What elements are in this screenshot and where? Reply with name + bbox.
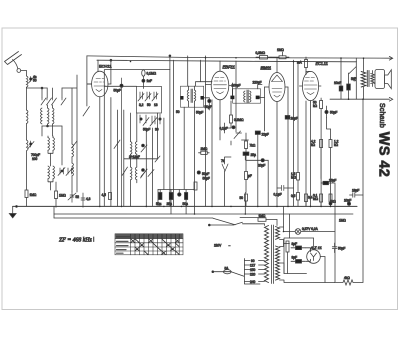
resistor 0.15M ecl left <box>297 173 300 193</box>
svg-text:220: 220 <box>250 272 256 276</box>
svg-text:1MΩ: 1MΩ <box>277 48 284 52</box>
capacitor 100pF osc low <box>142 169 145 172</box>
capacitor trimmer pad3 <box>152 92 158 101</box>
capacitor 8uF a <box>291 246 306 250</box>
wire hv vertical <box>334 184 336 283</box>
svg-text:10µF: 10µF <box>291 117 298 121</box>
antenna <box>5 52 27 77</box>
voltage selector <box>244 259 264 285</box>
trimmer arrows osc low <box>148 156 160 177</box>
resistor 2M ebf <box>199 151 210 154</box>
terminal top right <box>389 56 392 60</box>
svg-text:~: ~ <box>229 244 231 248</box>
coil band L7 pair <box>48 166 55 190</box>
capacitor 10nF tone <box>347 73 351 99</box>
tube EBF11 <box>206 61 233 140</box>
svg-text:52: 52 <box>76 195 80 199</box>
mains switch <box>209 222 265 225</box>
oscillator box outline <box>104 70 170 207</box>
wire lower bus 2 <box>54 213 353 215</box>
resistor zigzag tone <box>0 0 1 1</box>
resistor 0.5M ecl left2 <box>297 193 308 207</box>
wire em verts <box>258 60 306 206</box>
resistor 1M band <box>55 182 58 207</box>
capacitor 25uF ecl <box>321 181 335 184</box>
node junction dots buses <box>99 57 364 232</box>
svg-text:2MΩ: 2MΩ <box>201 147 208 151</box>
capacitor 8uF b <box>291 260 306 264</box>
svg-text:8µF: 8µF <box>292 256 298 260</box>
svg-text:kΩ: kΩ <box>334 143 339 147</box>
resistor 0.1M osc <box>142 70 145 89</box>
capacitor 10uF right <box>347 193 363 206</box>
svg-text:0,3MΩ: 0,3MΩ <box>234 118 244 122</box>
resistor 1.2k <box>329 129 332 206</box>
svg-text:1MΩ: 1MΩ <box>339 219 346 223</box>
wire ECH anode <box>110 60 112 206</box>
resistor ECL plate feed <box>305 57 308 75</box>
svg-text:µF: µF <box>248 174 252 178</box>
svg-text:220pF: 220pF <box>253 81 262 85</box>
svg-text:50µF: 50µF <box>114 89 121 93</box>
svg-text:1MΩ: 1MΩ <box>259 214 266 218</box>
switch arrow to grid <box>83 107 90 117</box>
capacitor 50uF ecl <box>325 110 328 113</box>
resistor 4.2k <box>320 140 323 179</box>
svg-text:0,1µF: 0,1µF <box>274 192 282 196</box>
capacitor 100pF osc <box>142 144 145 147</box>
coil antenna L2 <box>27 110 29 140</box>
capacitor 0.1uF af <box>277 185 294 190</box>
node ECH anode dot <box>110 59 112 61</box>
switch S1 contacts <box>41 98 66 105</box>
resistor 50k ecl cathode <box>320 98 323 206</box>
resistor 7k ebf <box>245 133 248 152</box>
dial lamp <box>284 229 335 235</box>
svg-text:50µ: 50µ <box>183 202 189 206</box>
svg-text:ZF = 468 kHz ǀ: ZF = 468 kHz ǀ <box>59 237 94 244</box>
svg-text:0,57V 0,2A: 0,57V 0,2A <box>302 227 319 231</box>
resistor 0.1M low1 <box>320 194 323 206</box>
coil band L4 pair <box>48 105 55 126</box>
svg-text:A Z 11: A Z 11 <box>310 245 322 250</box>
tube AZ11 rectifier <box>307 250 321 264</box>
wire ground bus <box>13 205 357 207</box>
wire second top bus <box>97 60 357 62</box>
table <box>115 234 183 255</box>
resistor az feed <box>286 241 289 274</box>
svg-text:50µF: 50µF <box>203 177 210 181</box>
wire speaker return vertical <box>362 99 364 282</box>
transformer IFT2 <box>230 83 264 103</box>
wire top B+ bus <box>87 56 392 58</box>
capacitor em series <box>271 52 289 59</box>
transformer IFT1 <box>180 86 209 107</box>
svg-text:25µ: 25µ <box>167 202 173 206</box>
svg-text:18µF: 18µF <box>352 189 359 193</box>
switch arrow ebf <box>234 131 241 139</box>
wire mid horiz <box>124 158 158 160</box>
svg-text:30: 30 <box>155 128 159 132</box>
wire az to bleeder <box>306 248 326 282</box>
capacitor 50pF ECH <box>120 78 123 207</box>
switch S2 arrows osc <box>72 140 148 178</box>
coil osc pair upper <box>131 142 137 155</box>
wire ebf verts <box>212 61 268 214</box>
fuse <box>212 270 244 277</box>
svg-text:50: 50 <box>240 196 244 200</box>
svg-text:10nF: 10nF <box>334 81 341 85</box>
terminal lower right <box>389 97 392 101</box>
svg-text:Schaub: Schaub <box>378 103 385 128</box>
svg-text:0,1MΩ: 0,1MΩ <box>147 72 157 76</box>
svg-text:0,1µF: 0,1µF <box>220 127 228 131</box>
coil band L6 pair <box>48 136 55 166</box>
wire IFT1 top feed <box>196 82 213 87</box>
node ant junction <box>41 87 43 89</box>
svg-text:150: 150 <box>250 268 256 272</box>
svg-text:50: 50 <box>33 79 37 83</box>
speaker <box>374 70 392 89</box>
wire osc verticals <box>118 110 164 206</box>
svg-text:kΩ: kΩ <box>313 104 318 108</box>
padder box <box>137 87 162 114</box>
AZ11 frame <box>284 238 314 274</box>
svg-text:3÷13µF: 3÷13µF <box>129 155 140 159</box>
svg-text:ECH11: ECH11 <box>99 63 112 68</box>
resistor 0.3M ebf <box>230 101 233 128</box>
switch tone arrow <box>349 67 357 74</box>
svg-text:25µF: 25µF <box>329 179 336 183</box>
wire lower bus 3 <box>54 218 258 225</box>
svg-text:100: 100 <box>32 157 38 161</box>
capacitor 20uF agc <box>246 159 268 162</box>
svg-text:50µF: 50µF <box>196 111 203 115</box>
capacitor trimmer pad1 <box>138 92 144 101</box>
wire antenna row <box>27 87 48 89</box>
capacitor 4-8 <box>81 193 85 207</box>
wire ecl verts <box>306 71 331 206</box>
svg-text:50: 50 <box>176 110 180 114</box>
resistor 1M heater <box>258 218 277 226</box>
svg-text:4,5: 4,5 <box>102 193 107 197</box>
capacitor 5nF tone <box>339 58 343 99</box>
resistor 1M ant <box>25 190 28 206</box>
tube ECH11 <box>87 60 111 206</box>
capacitor hv <box>332 243 337 253</box>
capacitor 25uF ebf <box>243 152 249 171</box>
wire bus2-3 left joint <box>53 206 55 218</box>
capacitor dot cluster3 <box>178 193 181 196</box>
svg-text:1MΩ: 1MΩ <box>30 193 37 197</box>
node switch bus dot <box>47 125 49 127</box>
ground <box>9 206 17 218</box>
svg-text:4,8: 4,8 <box>86 197 91 201</box>
svg-text:13: 13 <box>154 103 158 107</box>
svg-text:7kΩ: 7kΩ <box>250 144 256 148</box>
capacitor osc row below <box>140 114 161 126</box>
svg-text:50µF: 50µF <box>338 247 345 251</box>
capacitor 10n right <box>197 171 200 174</box>
svg-text:3,2: 3,2 <box>139 103 144 107</box>
wire EBF left vert <box>201 56 210 207</box>
svg-text:ECL11: ECL11 <box>316 61 329 66</box>
svg-text:100pF: 100pF <box>232 84 241 88</box>
power transformer <box>265 225 280 284</box>
coil antenna L1 <box>27 76 34 110</box>
capacitor trimmer pad2 <box>145 92 151 101</box>
svg-text:110V: 110V <box>214 244 222 248</box>
wire speaker bottom <box>330 98 390 100</box>
svg-text:0,3MΩ: 0,3MΩ <box>256 51 266 55</box>
capacitor 52pF <box>68 192 76 202</box>
resistor 0.5M left of bus2 <box>194 182 197 190</box>
svg-text:0,5: 0,5 <box>291 194 296 198</box>
wire transformer secondary taps <box>280 227 335 283</box>
resistor 0.3M em series <box>256 56 271 60</box>
resistor 50 ebf low <box>245 194 248 206</box>
svg-text:50µF: 50µF <box>330 111 337 115</box>
capacitor EBF grid <box>208 99 211 102</box>
svg-text:127: 127 <box>250 263 256 267</box>
svg-text:4kΩ: 4kΩ <box>344 276 350 280</box>
resistor vol pot <box>245 172 248 193</box>
capacitor trimmers mid <box>58 168 73 176</box>
wire band verticals <box>42 88 62 165</box>
svg-text:1MΩ: 1MΩ <box>59 194 66 198</box>
coil band L5 <box>41 108 43 124</box>
svg-text:90: 90 <box>251 259 255 263</box>
potentiometer arrow agc <box>222 164 228 171</box>
svg-text:MΩ: MΩ <box>313 197 319 201</box>
output transformer <box>361 58 374 99</box>
svg-text:50: 50 <box>147 103 151 107</box>
svg-text:EBF11: EBF11 <box>223 65 236 70</box>
svg-text:1nF: 1nF <box>147 79 153 83</box>
svg-text:5nF: 5nF <box>351 77 357 81</box>
svg-text:MΩ: MΩ <box>291 176 297 180</box>
resistor 4.5k <box>109 193 112 200</box>
wire cluster link <box>158 56 195 214</box>
capacitor 22uF em <box>255 131 260 134</box>
capacitor 25u cluster2 <box>169 190 172 215</box>
svg-text:WS 42: WS 42 <box>376 132 392 178</box>
capacitor 0.1u ebf <box>232 126 235 129</box>
svg-text:10µF: 10µF <box>344 199 351 203</box>
svg-text:22µF: 22µF <box>262 133 269 137</box>
svg-text:8µF: 8µF <box>292 242 298 246</box>
capacitor 50u cluster4 <box>185 193 188 215</box>
svg-text:20µF: 20µF <box>258 164 265 168</box>
tube EM11 <box>265 58 289 207</box>
tube ECL11 <box>299 71 321 102</box>
resistor 100k low2 <box>329 194 332 202</box>
svg-text:kΩ: kΩ <box>311 143 316 147</box>
svg-text:240: 240 <box>250 280 256 284</box>
coil antenna L3 <box>27 140 35 190</box>
svg-text:25µ: 25µ <box>251 153 257 157</box>
capacitor 10nF low <box>329 202 332 205</box>
wire grid row to ECH <box>62 56 92 192</box>
wire heater drop <box>284 206 290 238</box>
svg-text:EM11: EM11 <box>261 66 272 71</box>
coil osc pair lower <box>131 167 137 183</box>
coil mixer L8 <box>72 88 74 192</box>
svg-text:50µ: 50µ <box>156 202 162 206</box>
capacitor 50u cluster1 <box>159 193 162 200</box>
bleeder resistor <box>335 280 363 285</box>
capacitor 10uF em anode <box>285 116 290 120</box>
